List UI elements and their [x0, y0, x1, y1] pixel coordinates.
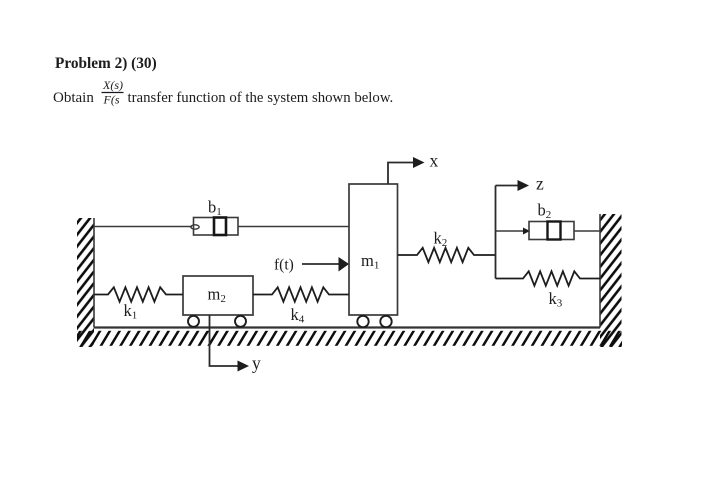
z bracket arrow [496, 185, 519, 187]
m1 wheel right [380, 316, 391, 327]
svg-text:transfer function of the syste: transfer function of the system shown be… [128, 90, 394, 106]
left wall (hatched) [77, 218, 94, 347]
x bracket: vertical riser from m1 top [388, 163, 414, 185]
m2 wheel right [235, 316, 246, 327]
damper b2 rod from junction [496, 230, 530, 232]
svg-text:b1: b1 [208, 198, 222, 219]
f(t) arrowhead [339, 257, 350, 272]
spring k3 [496, 271, 601, 285]
damper b1 rod loop [191, 225, 199, 229]
svg-text:k3: k3 [549, 289, 563, 310]
svg-text:z: z [536, 174, 544, 194]
z arrowhead [518, 180, 530, 191]
f(t) arrow line [302, 263, 340, 265]
spring k1 [94, 287, 183, 301]
fraction bar [102, 92, 124, 94]
damper b1 rod from wall [94, 226, 192, 228]
damper b2 rod dot [523, 228, 530, 235]
svg-text:k1: k1 [124, 301, 138, 322]
svg-text:b2: b2 [538, 201, 552, 222]
floor hatched band [77, 331, 622, 346]
damper b1 rod to m1 [238, 226, 349, 228]
m1 wheel left [357, 316, 368, 327]
damper b1 piston [214, 218, 226, 236]
svg-text:y: y [252, 353, 261, 373]
svg-text:k2: k2 [434, 229, 448, 250]
damper b2 rod to wall [574, 230, 600, 232]
mass m2 box [183, 276, 253, 315]
spring k4 [253, 287, 349, 301]
svg-text:Obtain: Obtain [53, 90, 94, 106]
y bracket from m2 bottom [210, 315, 239, 366]
x arrowhead [413, 157, 425, 168]
svg-text:Problem 2) (30): Problem 2) (30) [55, 55, 157, 72]
damper b2 piston [548, 222, 561, 240]
junction bar (node between k2, b2, k3) [495, 186, 497, 279]
left wall inner edge [93, 218, 95, 328]
damper b2 cylinder [529, 222, 574, 240]
svg-text:X(s): X(s) [102, 78, 123, 92]
svg-text:k4: k4 [291, 305, 305, 326]
svg-text:f(t): f(t) [274, 257, 294, 274]
damper b1 cylinder [194, 218, 239, 236]
svg-text:x: x [430, 151, 439, 171]
m2 wheel left [188, 316, 199, 327]
spring k2 [398, 248, 496, 262]
right wall (hatched) [600, 214, 622, 347]
mass m1 box [349, 184, 398, 315]
floor top line [94, 326, 600, 328]
right wall inner edge [599, 214, 601, 328]
svg-text:F(s: F(s [103, 93, 120, 107]
y arrowhead [238, 361, 250, 372]
